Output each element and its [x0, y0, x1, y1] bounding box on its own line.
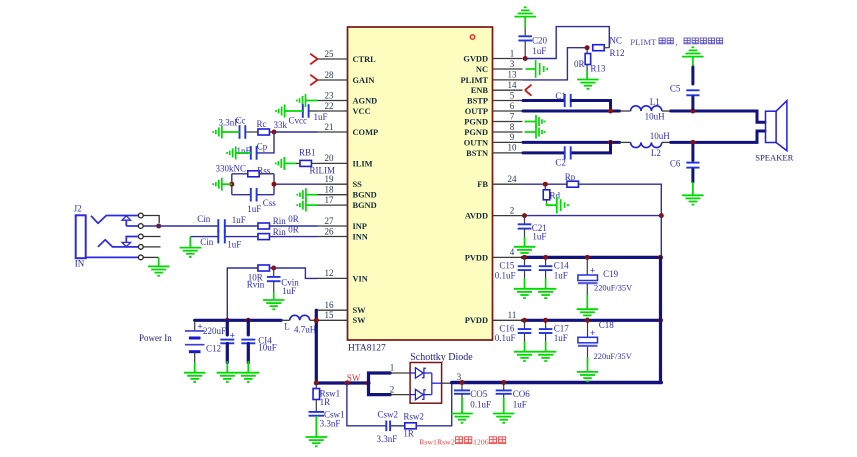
wire AVDD — [523, 215, 662, 217]
svg-text:1uF: 1uF — [554, 333, 568, 343]
ground C5 top — [682, 47, 704, 67]
svg-text:PLIMT: PLIMT — [630, 37, 657, 47]
svg-text:RB1: RB1 — [299, 147, 316, 157]
junction C14 — [543, 255, 548, 260]
jack contact circle 3 — [138, 234, 143, 239]
svg-text:PVDD: PVDD — [465, 316, 488, 325]
pin 6 OUTP — [465, 101, 523, 116]
capacitor Cvcc — [303, 104, 318, 118]
capacitor CO5 — [454, 383, 470, 394]
junction C17 — [543, 318, 548, 323]
svg-text:18: 18 — [325, 185, 335, 195]
speaker SPEAKER — [766, 101, 787, 151]
wire Rvin to pin 12 VIN — [274, 268, 318, 278]
ground Rd — [547, 197, 568, 214]
capacitor CO6 — [496, 383, 512, 394]
svg-text:15: 15 — [325, 310, 335, 320]
wire BSTN thick — [523, 151, 564, 154]
resistor R13 — [585, 48, 591, 71]
junction AVDD rail — [659, 213, 664, 218]
ground RB1 ILIM — [276, 157, 296, 170]
ground BGND pin 18 — [297, 188, 317, 201]
diode D1 box — [410, 363, 442, 404]
svg-text:ENB: ENB — [471, 86, 489, 95]
svg-text:3.3nF: 3.3nF — [320, 418, 341, 428]
svg-text:C19: C19 — [603, 269, 619, 279]
capacitor C15 — [518, 257, 532, 270]
wire OUTP thick — [523, 110, 620, 113]
svg-text:+: + — [590, 328, 595, 338]
capacitor Cin bottom — [217, 230, 219, 244]
resistor Rd — [543, 184, 550, 202]
svg-text:L2: L2 — [651, 148, 661, 158]
wire SW net — [316, 381, 368, 384]
svg-text:3: 3 — [510, 59, 515, 69]
wire SW riser — [315, 310, 318, 383]
junction node COMP — [272, 130, 277, 135]
svg-text:10uH: 10uH — [645, 112, 666, 122]
inductor L1 — [620, 106, 671, 111]
junction CO5 — [460, 380, 465, 385]
wire Csw2 to Rsw2 — [390, 425, 405, 427]
junction C5 — [690, 109, 695, 114]
junction power C13 — [225, 318, 230, 323]
svg-text:C12: C12 — [206, 343, 221, 353]
ground C19 — [577, 295, 599, 319]
svg-text:C5: C5 — [670, 84, 681, 94]
ground SS — [213, 178, 232, 191]
junction C15 — [522, 255, 527, 260]
ground AGND pin 23 — [297, 94, 318, 107]
wire PVDD rail vertical — [659, 257, 662, 382]
svg-text:1uF: 1uF — [314, 112, 328, 122]
jack contact circle 4 — [138, 245, 143, 250]
svg-text:19: 19 — [325, 174, 335, 184]
ground CO5 — [451, 394, 473, 423]
svg-text:220uF/35V: 220uF/35V — [594, 284, 632, 293]
junction SW diode — [366, 381, 371, 386]
wire Rin to pin 26 — [269, 236, 317, 238]
pin 13 PLIMT — [461, 70, 523, 85]
svg-text:SS: SS — [353, 180, 363, 189]
ground C12 — [184, 363, 206, 382]
svg-text:Rd: Rd — [550, 191, 561, 201]
capacitor Csw1 — [309, 411, 325, 413]
svg-text:RILIM: RILIM — [310, 166, 336, 176]
pin 8 PGND — [464, 122, 522, 137]
resistor Rp — [567, 181, 579, 187]
svg-text:Cin: Cin — [197, 214, 211, 224]
junction power CI4 — [246, 318, 251, 323]
svg-text:1uF: 1uF — [532, 231, 546, 241]
battery capacitor C12 — [185, 321, 205, 363]
junction C19 — [585, 255, 590, 260]
svg-text:220uF/35V: 220uF/35V — [594, 352, 632, 361]
svg-text:C14: C14 — [554, 260, 570, 270]
wire AVDD to PVDD rail — [660, 216, 662, 258]
pin 23 AGND — [318, 90, 378, 105]
label annotation PLIMT — [630, 37, 722, 47]
svg-text:PVDD: PVDD — [465, 253, 488, 262]
pin 3 NC — [476, 59, 523, 74]
svg-text:0.1uF: 0.1uF — [495, 333, 516, 343]
svg-text:L: L — [284, 321, 290, 331]
svg-text:0.1uF: 0.1uF — [470, 400, 491, 410]
U1 polarity mark red circle — [470, 35, 474, 39]
svg-text:AVDD: AVDD — [465, 212, 488, 221]
svg-text:BGND: BGND — [353, 191, 377, 200]
svg-text:BGND: BGND — [353, 201, 377, 210]
pin 27 INP — [318, 216, 367, 231]
ground C16 — [514, 333, 536, 361]
wire COMP pin 21 to Rc — [269, 131, 317, 133]
pin 14 ENB — [471, 80, 523, 95]
capacitor C19 electrolytic — [578, 257, 598, 300]
svg-text:+: + — [198, 322, 203, 332]
jack tip contact — [91, 216, 138, 224]
ground BGND pin 17 — [297, 199, 317, 212]
svg-text:Csw2: Csw2 — [378, 409, 399, 419]
capacitor C20 — [518, 28, 532, 59]
wire power bus — [195, 319, 282, 322]
pin 28 GAIN — [318, 70, 375, 85]
svg-text:1206: 1206 — [473, 437, 489, 446]
ground Cvcc — [276, 105, 303, 118]
ground PGND pin 7 — [525, 115, 545, 128]
svg-text:OUTN: OUTN — [464, 138, 488, 147]
wire OUTP rail to speaker — [671, 111, 765, 122]
wire BSTP thick — [523, 99, 564, 102]
wire Csw2 branch — [347, 383, 386, 426]
junction SW Rsw1 — [314, 381, 319, 386]
junction C16 — [522, 318, 527, 323]
resistor Rin INP — [258, 223, 270, 229]
wire Cin to Rin INP — [225, 225, 258, 227]
svg-text:C16: C16 — [499, 323, 515, 333]
junction C18 — [585, 318, 590, 323]
wire C1 to OUTP — [571, 101, 610, 112]
inductor L2 — [620, 142, 671, 147]
svg-text:1R: 1R — [403, 428, 414, 438]
junction Rvin Cvin — [269, 267, 273, 269]
no-connect chevron pin 14 ENB — [525, 85, 532, 96]
pin 16 SW — [318, 300, 367, 315]
svg-text:1uF: 1uF — [232, 215, 246, 225]
junction SW L — [314, 318, 319, 323]
wire Cin to Rin INN — [225, 236, 258, 238]
svg-text:SW: SW — [347, 373, 361, 383]
svg-text:NC: NC — [476, 65, 488, 74]
svg-text:10uH: 10uH — [650, 131, 671, 141]
pin 12 VIN — [318, 268, 368, 283]
wire C2 to OUTN — [571, 142, 610, 153]
junction FB Rd — [543, 182, 548, 187]
pin 15 SW — [318, 310, 367, 325]
svg-text:INP: INP — [353, 222, 367, 231]
svg-text:C18: C18 — [599, 320, 615, 330]
svg-text:COMP: COMP — [353, 128, 379, 137]
svg-text:C6: C6 — [670, 158, 681, 168]
svg-text:20: 20 — [325, 153, 335, 163]
wire SS pin 19 — [274, 183, 318, 185]
svg-text:IN: IN — [75, 259, 85, 269]
pin 7 PGND — [464, 111, 522, 126]
svg-text:GVDD: GVDD — [463, 54, 488, 63]
svg-text:C1: C1 — [555, 91, 566, 101]
wire PVDD4 bus — [523, 256, 661, 259]
jack contact circle 5 — [138, 255, 143, 260]
svg-text:Power In: Power In — [139, 333, 172, 343]
resistor Rc — [258, 129, 270, 135]
svg-text:26: 26 — [325, 226, 335, 236]
svg-text:OUTP: OUTP — [465, 107, 488, 116]
jack sleeve wire — [86, 256, 139, 258]
ground Cc — [213, 126, 239, 139]
wire diode fork — [369, 373, 391, 395]
resistor Rin INN — [258, 234, 270, 240]
pin 26 INN — [318, 226, 368, 241]
diode D2 — [410, 389, 432, 400]
wire tip to node — [143, 216, 159, 224]
svg-text:Rsw2: Rsw2 — [403, 412, 424, 422]
svg-text:5: 5 — [510, 90, 515, 100]
pin 2 AVDD — [465, 205, 523, 220]
capacitor C1 — [564, 94, 566, 107]
connector J2 audio jack body — [76, 215, 86, 258]
svg-text:27: 27 — [325, 216, 335, 226]
wire Cin bottom left — [190, 236, 218, 238]
wire OUTN rail to speaker — [671, 131, 765, 142]
junction jack signal — [156, 224, 161, 229]
ground Cp — [227, 146, 251, 159]
wire Rp to AVDD rail — [578, 184, 661, 215]
svg-text:BSTP: BSTP — [467, 96, 488, 105]
svg-text:23: 23 — [325, 90, 335, 100]
svg-text:330kNC: 330kNC — [216, 164, 247, 174]
svg-text:24: 24 — [508, 174, 518, 184]
pin 20 ILIM — [318, 153, 373, 168]
svg-text:+: + — [590, 266, 595, 276]
svg-text:10uF: 10uF — [258, 343, 277, 353]
ground R13 — [577, 70, 599, 89]
svg-text:Rvin: Rvin — [247, 280, 265, 290]
pin 22 VCC — [318, 101, 371, 116]
junction PLIMT R12 — [585, 45, 590, 50]
capacitor Cin top — [217, 219, 219, 233]
inductor L — [281, 315, 316, 320]
svg-text:1nF: 1nF — [237, 146, 251, 156]
svg-text:6: 6 — [510, 101, 515, 111]
junction AVDD C21 — [522, 213, 527, 218]
ground C18 — [577, 357, 599, 381]
svg-text:Rss: Rss — [257, 166, 271, 176]
capacitor Cp — [250, 146, 252, 160]
pin 17 BGND — [318, 195, 377, 210]
wire PLIMT riser — [523, 48, 588, 80]
stub circle4 — [143, 246, 160, 248]
ground C14 — [535, 270, 557, 298]
svg-text:PGND: PGND — [464, 128, 488, 137]
capacitor C16 — [518, 320, 532, 333]
wire node3 bus — [452, 381, 662, 384]
wire diode to node 3 — [442, 382, 455, 384]
svg-text:Rin: Rin — [273, 216, 287, 226]
svg-text:L1: L1 — [650, 97, 660, 107]
ground CI4 — [238, 361, 259, 382]
ground Csw1 — [306, 416, 328, 446]
junction OUTN — [608, 140, 613, 145]
svg-text:21: 21 — [325, 122, 334, 132]
wire Rin to pin 27 — [269, 225, 317, 227]
jack contact circle 2 — [138, 224, 143, 229]
svg-text:C15: C15 — [499, 260, 515, 270]
junction SS right — [272, 182, 277, 187]
no-connect chevron pin 25 CTRL — [310, 54, 317, 65]
svg-text:4.7uH: 4.7uH — [294, 325, 317, 335]
svg-text:9: 9 — [510, 132, 515, 142]
wire power rail to Rvin — [227, 268, 258, 320]
stub circle3 — [143, 236, 160, 238]
pin 5 BSTP — [467, 90, 522, 105]
resistor Rss — [248, 171, 260, 177]
no-connect chevron pin 28 GAIN — [310, 75, 317, 86]
svg-text:1uF: 1uF — [513, 400, 527, 410]
ground C13 — [217, 361, 239, 382]
svg-text:,: , — [676, 37, 678, 47]
svg-text:SW: SW — [353, 306, 367, 315]
svg-text:33k: 33k — [274, 120, 288, 130]
svg-text:HTA8127: HTA8127 — [348, 344, 386, 354]
capacitor C17 — [539, 320, 553, 333]
capacitor Cc — [240, 125, 259, 139]
svg-text:0R: 0R — [574, 59, 585, 69]
svg-text:VCC: VCC — [353, 107, 371, 116]
svg-text:AGND: AGND — [353, 96, 378, 105]
svg-text:1: 1 — [510, 48, 515, 58]
junction C6 — [690, 140, 695, 145]
svg-text:2: 2 — [390, 385, 395, 395]
svg-text:Cp: Cp — [257, 141, 268, 151]
svg-text:14: 14 — [508, 80, 518, 90]
svg-text:13: 13 — [508, 70, 518, 80]
svg-text:INN: INN — [353, 232, 368, 241]
svg-text:J2: J2 — [74, 204, 82, 214]
svg-text:1R: 1R — [320, 397, 331, 407]
capacitor C14 — [539, 257, 553, 270]
svg-text:16: 16 — [325, 300, 335, 310]
svg-text:8: 8 — [510, 122, 515, 132]
svg-text:Schottky Diode: Schottky Diode — [410, 352, 473, 363]
svg-text:7: 7 — [510, 111, 515, 121]
pin 10 BSTN — [466, 143, 522, 158]
wire SS loop — [231, 174, 233, 195]
ground GVDD top — [514, 7, 536, 27]
ground J2 sleeve — [148, 257, 170, 275]
resistor Rsw1 — [313, 383, 320, 412]
svg-text:10: 10 — [508, 143, 518, 153]
resistor Rvin — [258, 265, 270, 271]
svg-text:GAIN: GAIN — [353, 76, 375, 85]
svg-text:1uF: 1uF — [227, 240, 241, 250]
svg-text:22: 22 — [325, 101, 334, 111]
label note Rsw 1206 — [419, 437, 506, 447]
pin 11 PVDD — [465, 310, 523, 325]
svg-text:CO5: CO5 — [470, 389, 488, 399]
resistor Rsw2 — [405, 423, 417, 429]
ground C6 — [682, 182, 704, 205]
svg-text:R12: R12 — [610, 48, 625, 58]
ground NC pin 3 — [526, 60, 548, 78]
svg-text:Cvcc: Cvcc — [289, 116, 308, 126]
svg-text:1uF: 1uF — [554, 270, 568, 280]
pin 25 CTRL — [318, 49, 377, 64]
svg-text:C2: C2 — [555, 157, 566, 167]
svg-text:CO6: CO6 — [513, 389, 531, 399]
svg-text:Css: Css — [263, 198, 277, 208]
capacitor Css — [250, 188, 252, 202]
ground C15 — [514, 270, 536, 298]
svg-text:0R: 0R — [288, 214, 299, 224]
capacitor C13 bulk — [220, 320, 234, 362]
pin 4 PVDD — [465, 247, 523, 262]
wire Rsw2 up to node 3 — [416, 383, 452, 426]
svg-text:Rp: Rp — [565, 172, 576, 182]
capacitor C6 — [686, 145, 699, 182]
capacitor C21 — [518, 216, 532, 229]
svg-text:BSTN: BSTN — [466, 149, 488, 158]
ground CO6 — [493, 394, 515, 423]
resistor RB1 — [296, 160, 318, 166]
wire diode anode 2 — [390, 394, 410, 396]
wire jack to Cin — [143, 225, 218, 227]
pin 21 COMP — [318, 122, 379, 137]
svg-text:SPEAKER: SPEAKER — [755, 153, 793, 163]
svg-text:1uF: 1uF — [282, 286, 296, 296]
wire diode anode 1 — [390, 372, 410, 374]
svg-text:+: + — [230, 330, 235, 340]
op-amp U1 HTA8127 body — [348, 27, 493, 340]
svg-text:R13: R13 — [590, 64, 606, 74]
svg-text:CTRL: CTRL — [353, 55, 377, 64]
svg-text:3.3nF: 3.3nF — [377, 434, 398, 444]
wire PVDD11 bus — [523, 319, 661, 322]
svg-text:PGND: PGND — [464, 117, 488, 126]
junction SS left — [229, 182, 234, 187]
junction PVDD11 rail — [658, 318, 663, 323]
capacitor C2 — [564, 146, 566, 159]
svg-text:Cin: Cin — [200, 237, 214, 247]
capacitor C5 — [686, 67, 699, 109]
svg-text:NC: NC — [609, 35, 622, 45]
svg-text:1: 1 — [390, 362, 395, 372]
svg-text:1uF: 1uF — [532, 46, 546, 56]
wire OUTN thick — [523, 141, 620, 144]
capacitor CI4 — [241, 320, 255, 362]
svg-text:0.1uF: 0.1uF — [495, 270, 516, 280]
ground C17 — [535, 333, 557, 361]
svg-text:VIN: VIN — [353, 274, 368, 283]
svg-text:12: 12 — [325, 268, 334, 278]
svg-text:2: 2 — [510, 205, 515, 215]
capacitor Cvin — [267, 268, 281, 281]
pin 9 OUTN — [464, 132, 523, 147]
wire diode cathode join — [432, 373, 442, 395]
wire COMP down to Cp — [257, 132, 275, 153]
junction OUTP — [608, 109, 613, 114]
pin 24 FB — [477, 174, 522, 189]
svg-text:28: 28 — [325, 70, 335, 80]
diode D1 — [410, 368, 432, 379]
